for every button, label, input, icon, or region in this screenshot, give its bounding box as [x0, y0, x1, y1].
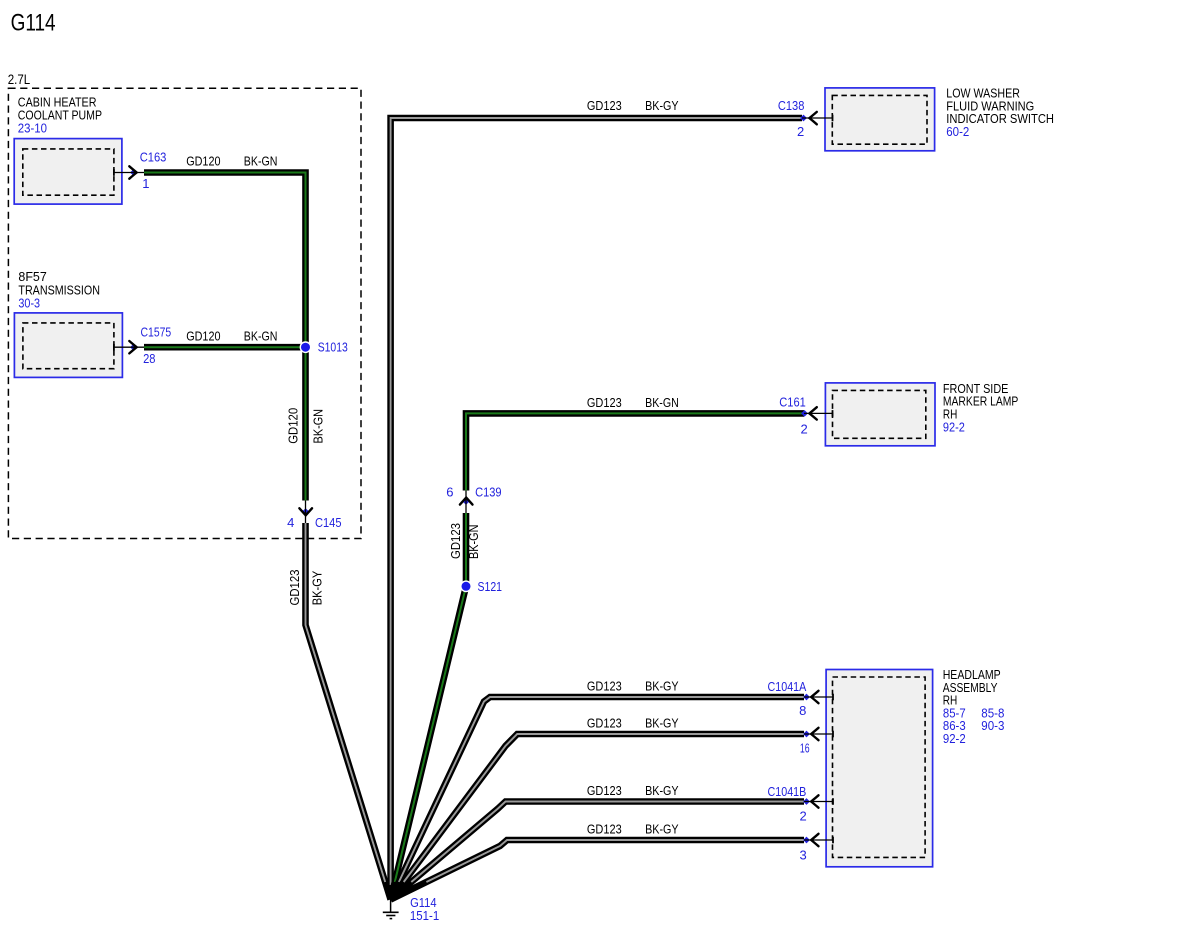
- svg-text:C1041B: C1041B: [768, 784, 807, 799]
- wire GD123 BK-GY from C138 left then down to ground G114: [391, 118, 802, 900]
- pin lead wire: [804, 733, 833, 735]
- component outline box: [14, 139, 122, 205]
- wire GD123 BK-GY headlamp pin 3 to ground: [391, 840, 804, 900]
- component inner dashed box: [23, 323, 114, 369]
- svg-text:8: 8: [799, 703, 806, 718]
- headlamp pin 16 connector: [587, 716, 833, 756]
- svg-text:C1575: C1575: [141, 324, 172, 339]
- wire GD123 BK-GN from C139 down through S121 to ground G114: [391, 513, 466, 900]
- svg-text:23-10: 23-10: [18, 121, 47, 136]
- connector point marker: [463, 498, 470, 505]
- component inner dashed box: [833, 677, 926, 857]
- svg-text:BK-GY: BK-GY: [645, 716, 679, 731]
- svg-text:GD123: GD123: [587, 98, 622, 113]
- connector arrow: [811, 691, 818, 703]
- svg-text:92-2: 92-2: [943, 731, 966, 746]
- connector point marker: [801, 410, 808, 417]
- connector C163 pin line and arrow: [114, 149, 278, 191]
- splice dot: [461, 581, 471, 591]
- svg-text:4: 4: [287, 515, 294, 530]
- connector point marker: [302, 508, 309, 515]
- svg-text:151-1: 151-1: [410, 908, 439, 923]
- svg-text:BK-GY: BK-GY: [645, 822, 679, 837]
- svg-text:C138: C138: [778, 98, 805, 113]
- svg-text:S121: S121: [478, 579, 503, 594]
- connector point marker: [800, 115, 807, 122]
- wire GD120 BK-GN from C1575 to S1013: [144, 344, 306, 351]
- splice dot: [300, 342, 310, 352]
- connector point marker: [130, 169, 137, 176]
- rotated wire labels GD123 BK-GN (below C139): [448, 523, 481, 559]
- wire GD123 BK-GY headlamp pin 8 to ground: [391, 697, 804, 900]
- 2.7L engine dashed group box: [8, 71, 361, 539]
- pin stub tick: [832, 798, 834, 805]
- connector point marker: [803, 798, 810, 805]
- component box: FRONT SIDE MARKER LAMP RH: [825, 381, 1018, 446]
- svg-text:S1013: S1013: [318, 339, 348, 354]
- splice S1013: [300, 339, 348, 354]
- pin lead wire: [804, 696, 833, 698]
- svg-text:GD123: GD123: [587, 395, 622, 410]
- svg-text:GD123: GD123: [587, 679, 622, 694]
- connector arrow: [809, 112, 816, 124]
- connector C139 arrow (in-line, pointing up): [446, 485, 501, 513]
- pin lead wire: [804, 839, 833, 841]
- svg-text:BK-GN: BK-GN: [244, 328, 278, 343]
- pin stub tick: [832, 837, 834, 844]
- connector C161 pin line and arrow: [587, 394, 833, 436]
- wire GD120 BK-GN from C163 through S1013 down to C145: [144, 173, 306, 501]
- svg-text:BK-GY: BK-GY: [310, 570, 325, 605]
- pin stub tick: [832, 731, 834, 738]
- svg-text:BK-GN: BK-GN: [466, 525, 481, 560]
- wire GD123 BK-GY from C145 down to ground G114: [306, 523, 391, 900]
- svg-text:C145: C145: [315, 515, 342, 530]
- splice S121: [461, 579, 502, 594]
- connector arrow: [299, 508, 312, 515]
- connector point marker: [803, 731, 810, 738]
- svg-text:GD120: GD120: [186, 328, 220, 343]
- svg-text:GD123: GD123: [448, 523, 463, 559]
- pin lead wire: [305, 501, 307, 524]
- svg-text:6: 6: [446, 485, 453, 500]
- pin stub tick: [832, 694, 834, 701]
- pin lead wire: [465, 491, 467, 514]
- svg-text:GD120: GD120: [186, 154, 220, 169]
- svg-text:GD123: GD123: [287, 570, 302, 606]
- svg-text:BK-GY: BK-GY: [645, 98, 679, 113]
- connector arrow: [811, 795, 818, 807]
- svg-text:60-2: 60-2: [946, 124, 969, 139]
- svg-text:2: 2: [799, 809, 806, 824]
- connector arrow: [129, 166, 136, 178]
- svg-text:BK-GN: BK-GN: [244, 154, 278, 169]
- svg-text:3: 3: [799, 847, 806, 862]
- svg-text:C1041A: C1041A: [768, 679, 807, 694]
- connector arrow: [811, 728, 818, 740]
- ground G114 symbol: [383, 895, 439, 923]
- svg-text:C163: C163: [140, 149, 167, 164]
- svg-text:GD120: GD120: [286, 408, 301, 444]
- wire GD123 BK-GN from C161 left then down to C139: [466, 413, 804, 490]
- svg-text:C161: C161: [779, 394, 806, 409]
- svg-text:BK-GY: BK-GY: [645, 679, 679, 694]
- svg-text:GD123: GD123: [587, 783, 622, 798]
- component inner dashed box: [833, 390, 926, 438]
- svg-text:BK-GN: BK-GN: [645, 395, 679, 410]
- svg-text:BK-GY: BK-GY: [645, 783, 679, 798]
- svg-text:16: 16: [800, 741, 810, 756]
- svg-text:2: 2: [797, 124, 804, 139]
- component inner dashed box: [832, 95, 927, 144]
- headlamp pin 2 connector: [587, 783, 833, 823]
- component outline box: [825, 383, 935, 446]
- svg-text:C139: C139: [475, 485, 502, 500]
- connector C138 pin line and arrow: [587, 98, 833, 139]
- connector C1575 pin line and arrow: [114, 324, 278, 366]
- rotated wire labels GD123 BK-GY (run below C145): [287, 570, 325, 606]
- component box: LOW WASHER FLUID WARNING INDICATOR SWITCH: [825, 86, 1054, 151]
- svg-text:GD123: GD123: [587, 716, 622, 731]
- pin lead wire: [802, 117, 833, 119]
- connector arrow: [811, 834, 818, 846]
- pin lead wire: [804, 412, 833, 414]
- svg-text:2: 2: [801, 421, 808, 436]
- connector arrow: [129, 341, 136, 353]
- connector arrow: [809, 407, 816, 419]
- pin stub tick: [832, 115, 834, 122]
- svg-text:2.7L: 2.7L: [8, 71, 31, 87]
- pin lead wire: [804, 801, 833, 803]
- connector arrow: [460, 498, 473, 505]
- svg-text:1: 1: [142, 176, 149, 191]
- headlamp pin 3 connector: [587, 822, 833, 863]
- component outline box: [825, 88, 935, 151]
- rotated wire labels GD120 BK-GN (vertical run above C145): [286, 408, 326, 444]
- svg-text:30-3: 30-3: [18, 296, 40, 311]
- svg-text:G114: G114: [11, 9, 56, 36]
- pin lead wire: [114, 346, 144, 348]
- headlamp pin 8 connector: [587, 679, 833, 718]
- wire GD123 BK-GY headlamp pin 2 to ground: [391, 802, 804, 900]
- svg-text:BK-GN: BK-GN: [310, 409, 325, 444]
- connector point marker: [803, 694, 810, 701]
- component inner dashed box: [23, 149, 114, 195]
- svg-text:28: 28: [143, 351, 155, 366]
- pin stub tick: [832, 410, 834, 417]
- component outline box: [826, 670, 933, 867]
- connector point marker: [803, 837, 810, 844]
- connector point marker: [130, 344, 137, 351]
- pin stub tick: [113, 344, 115, 351]
- svg-text:92-2: 92-2: [943, 419, 965, 434]
- svg-text:GD123: GD123: [587, 822, 622, 837]
- component box: 8F57 TRANSMISSION: [14, 269, 122, 377]
- component box: CABIN HEATER COOLANT PUMP: [14, 95, 122, 205]
- pin stub tick: [113, 169, 115, 176]
- component box: HEADLAMP ASSEMBLY RH: [826, 667, 1004, 867]
- pin lead wire: [114, 172, 144, 174]
- svg-text:90-3: 90-3: [981, 718, 1004, 733]
- wire GD123 BK-GY headlamp pin 16 to ground: [391, 734, 804, 900]
- component outline box: [14, 313, 122, 378]
- connector C145 arrow (in-line, pointing down): [287, 501, 341, 530]
